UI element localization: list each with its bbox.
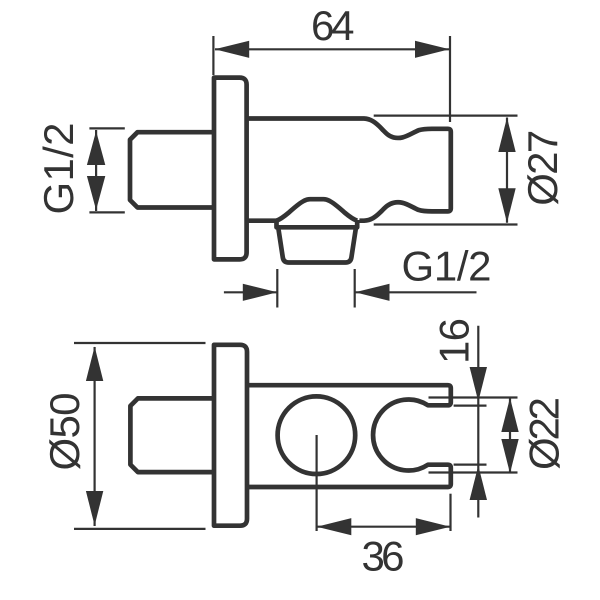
- dim G1/2 bottom right extension: [354, 269, 356, 308]
- dim G1/2 left down arrow: [87, 176, 105, 210]
- inlet pipe top view: [130, 398, 215, 472]
- dim 36 line: [317, 526, 450, 528]
- dim G1/2 bottom left arrow: [243, 284, 277, 301]
- dim G1/2 left up arrow: [87, 131, 105, 165]
- outlet dome: [277, 199, 358, 221]
- svg-text:Ø22: Ø22: [521, 397, 568, 470]
- circle center line: [316, 435, 318, 531]
- wall plate top view: [214, 345, 247, 526]
- mounting circle top view: [278, 396, 356, 474]
- dim 16 down arrow: [470, 367, 487, 402]
- dim diam22 line: [509, 398, 511, 473]
- dim diam22 up arrow: [501, 398, 518, 432]
- fork extension line outer top: [429, 396, 518, 398]
- dim G1/2 left line: [95, 130, 97, 211]
- dim diam27 top extension: [374, 114, 518, 116]
- svg-text:Ø50: Ø50: [41, 393, 88, 471]
- dim diam50 line: [93, 347, 95, 526]
- svg-text:64: 64: [311, 2, 355, 49]
- dim diam50 bottom extension: [74, 528, 206, 530]
- arm bottom edge left of outlet: [245, 218, 277, 223]
- dim 36 right extension: [449, 494, 451, 531]
- outlet collar: [277, 220, 358, 227]
- svg-text:36: 36: [362, 533, 405, 580]
- dim diam27 up arrow: [498, 118, 515, 153]
- dim diam50 down arrow: [86, 491, 103, 526]
- dim diam27 down arrow: [498, 188, 515, 223]
- dim 36 left arrow: [317, 518, 352, 535]
- dim 64 left arrow: [215, 41, 250, 58]
- dim G1/2 left top extension: [89, 127, 124, 129]
- dim G1/2 bottom right arrow: [355, 284, 390, 301]
- dim 36 right arrow: [416, 518, 451, 535]
- dim diam27 bottom extension: [374, 223, 518, 225]
- wall plate front view: [214, 78, 247, 260]
- dim 64 left extension line: [212, 36, 214, 75]
- dim G1/2 bottom right tail: [355, 291, 477, 293]
- dim G1/2 left bottom extension: [89, 211, 124, 213]
- svg-text:Ø27: Ø27: [519, 130, 566, 206]
- dim G1/2 bottom left extension: [276, 269, 278, 308]
- fork extension line inner top: [454, 405, 487, 407]
- dim 16 up arrow: [470, 466, 487, 501]
- dim diam27 line: [506, 118, 508, 223]
- fork extension line outer bottom: [429, 471, 518, 473]
- dim G1/2 bottom left tail: [224, 291, 277, 293]
- fork extension line inner bottom: [454, 464, 487, 466]
- dim 64 line: [215, 48, 449, 50]
- svg-text:16: 16: [431, 318, 478, 364]
- dim 64 right extension line: [449, 36, 451, 122]
- dim diam22 down arrow: [501, 439, 518, 473]
- inlet pipe front view: [130, 132, 216, 207]
- svg-text:G1/2: G1/2: [35, 123, 82, 215]
- dim diam50 up arrow: [86, 347, 103, 382]
- dim 16 line: [477, 326, 479, 518]
- holder arm front view: [245, 119, 451, 221]
- dim 64 right arrow: [415, 41, 450, 58]
- svg-text:G1/2: G1/2: [402, 243, 492, 290]
- dim diam50 top extension: [74, 342, 206, 344]
- holder arm top view with fork: [245, 385, 451, 487]
- outlet thread trapezoid: [278, 227, 356, 262]
